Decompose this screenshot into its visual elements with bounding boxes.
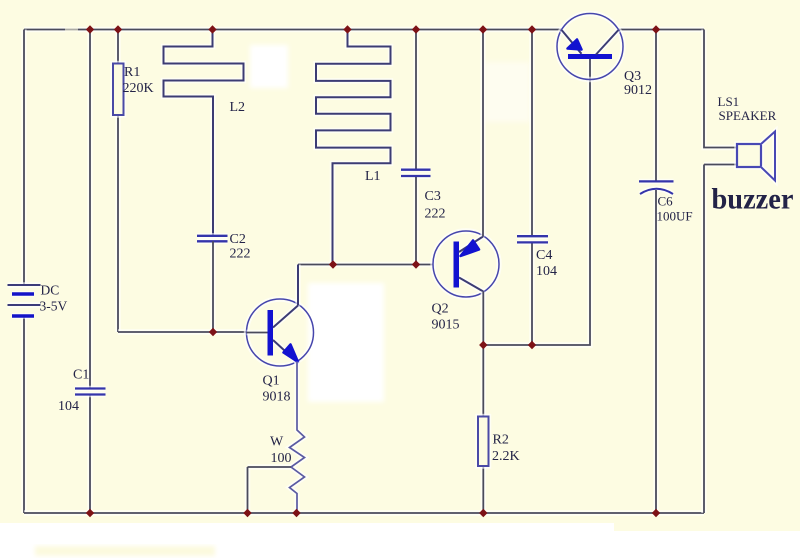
svg-text:LS1: LS1 xyxy=(718,94,740,109)
svg-text:222: 222 xyxy=(230,246,251,261)
svg-text:100UF: 100UF xyxy=(657,209,693,224)
node: C4-Q3 base xyxy=(528,341,536,349)
svg-text:R2: R2 xyxy=(493,433,509,448)
svg-text:DC: DC xyxy=(41,282,60,297)
svg-text:Q3: Q3 xyxy=(624,69,641,84)
resistor R2 xyxy=(478,345,520,513)
svg-text:C2: C2 xyxy=(230,232,246,247)
svg-text:100: 100 xyxy=(271,451,292,466)
node: Q2 collector-R2 xyxy=(479,341,487,349)
wire: bottom ground rail xyxy=(24,510,704,515)
svg-text:L1: L1 xyxy=(365,169,381,184)
node: ground-R2 xyxy=(479,509,487,517)
capacitor C3 xyxy=(401,30,446,265)
svg-text:C1: C1 xyxy=(73,368,89,383)
svg-text:Q2: Q2 xyxy=(432,301,449,316)
inductor L1 xyxy=(316,30,391,265)
transistor Q2 xyxy=(432,231,500,332)
wire: top power rail xyxy=(24,26,704,33)
svg-text:L2: L2 xyxy=(230,100,246,115)
node: rail-C1 xyxy=(86,25,94,33)
svg-text:Q1: Q1 xyxy=(263,373,280,388)
wire: Q2 collector down xyxy=(481,292,486,346)
svg-text:SPEAKER: SPEAKER xyxy=(719,108,777,123)
wire: Q3 base branch xyxy=(483,59,590,346)
node: C2-Q1 base xyxy=(209,328,217,336)
potentiometer W 100 xyxy=(248,362,305,513)
node: ground-C6 xyxy=(652,509,660,517)
node: rail-C4 xyxy=(528,25,536,33)
wire: Q1 base xyxy=(118,329,247,334)
node: L1-mid wire xyxy=(329,260,337,268)
svg-text:222: 222 xyxy=(425,207,446,222)
node: C3-mid wire xyxy=(412,260,420,268)
svg-text:104: 104 xyxy=(58,399,79,414)
transistor Q3 xyxy=(557,14,652,98)
wire: C1 branch xyxy=(87,30,92,514)
node: rail-L1 xyxy=(343,25,351,33)
node: rail-C6 xyxy=(652,25,660,33)
svg-text:C3: C3 xyxy=(425,189,441,204)
svg-text:9018: 9018 xyxy=(263,389,291,404)
node: rail-Q2 emitter xyxy=(479,25,487,33)
capacitor C2 xyxy=(197,232,251,332)
capacitor C1 xyxy=(58,368,106,415)
svg-text:C6: C6 xyxy=(658,194,674,209)
wire: Q2 emitter to rail xyxy=(480,30,485,237)
inductor L2 xyxy=(164,30,246,236)
node: ground-W wiper xyxy=(243,509,251,517)
node: rail-L2 xyxy=(208,25,216,33)
resistor R1 xyxy=(113,30,154,333)
svg-text:9015: 9015 xyxy=(432,317,460,332)
svg-text:3-5V: 3-5V xyxy=(40,299,68,314)
wire: mid horizontal Q1 collector to Q2 base xyxy=(298,262,434,267)
battery DC 3-5V xyxy=(8,282,68,316)
capacitor C6 100UF xyxy=(639,30,693,514)
wire: left battery branch xyxy=(21,30,26,514)
svg-text:C4: C4 xyxy=(536,248,552,263)
node: rail-R1 xyxy=(114,25,122,33)
svg-text:2.2K: 2.2K xyxy=(492,449,520,464)
svg-text:9012: 9012 xyxy=(624,83,652,98)
transistor Q1 xyxy=(247,265,314,405)
capacitor C4 xyxy=(517,30,557,346)
svg-text:R1: R1 xyxy=(124,65,140,80)
node: rail-C3 xyxy=(412,25,420,33)
svg-text:W: W xyxy=(270,435,284,450)
svg-text:buzzer: buzzer xyxy=(712,183,794,216)
node: ground-C1 xyxy=(86,509,94,517)
speaker LS1 xyxy=(704,30,777,514)
svg-text:220K: 220K xyxy=(123,81,154,96)
node: ground-W xyxy=(292,509,300,517)
svg-text:104: 104 xyxy=(536,264,557,279)
